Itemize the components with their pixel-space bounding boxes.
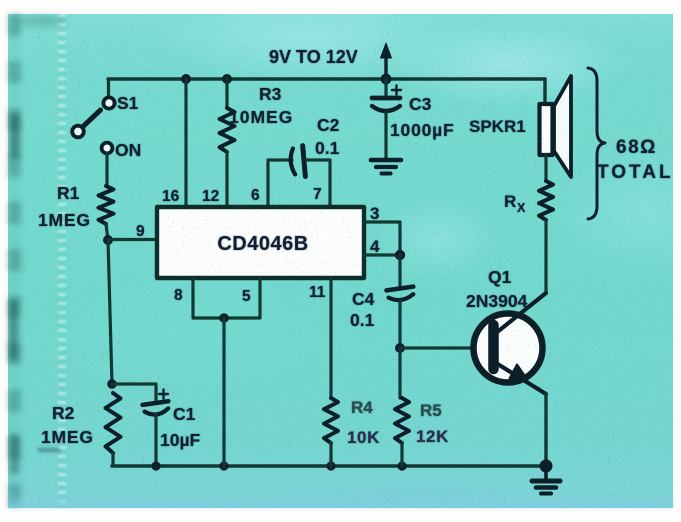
node: supply / C3 junction	[381, 74, 392, 85]
polarity + (C1)	[159, 390, 168, 399]
svg-text:C2: C2	[317, 115, 340, 135]
wire: R2 bottom to ground rail	[111, 453, 114, 466]
wire: pin 6 up to C2 loop	[268, 160, 292, 207]
wire: R4 to ground rail	[329, 443, 332, 466]
svg-text:1MEG: 1MEG	[41, 427, 94, 447]
svg-text:2N3904: 2N3904	[466, 291, 528, 311]
transistor Q1 2N3904	[474, 293, 547, 394]
svg-text:10µF: 10µF	[160, 430, 201, 450]
speaker SPKR1	[540, 76, 572, 177]
svg-text:12: 12	[202, 188, 219, 205]
wire: emitter to ground rail	[544, 394, 547, 466]
svg-text:R5: R5	[420, 401, 442, 420]
capacitor C2	[289, 146, 305, 178]
svg-text:X: X	[517, 201, 526, 215]
node: C1 / ground-rail junction	[151, 461, 160, 470]
svg-text:12K: 12K	[416, 427, 449, 446]
svg-text:CD4046B: CD4046B	[217, 233, 308, 255]
svg-text:4: 4	[370, 237, 380, 256]
wire: C1 bottom to ground rail	[154, 414, 157, 466]
resistor R3	[220, 108, 235, 152]
wire: C3 to ground	[384, 112, 387, 158]
wire: R1 to node A	[106, 224, 108, 240]
wire: loop down to ground rail	[222, 318, 225, 466]
node: R2/C1 junction	[107, 379, 117, 389]
node: emitter / ground-rail junction	[540, 460, 553, 473]
wire: +V rail to R3	[225, 79, 228, 108]
wire: ON terminal to R1	[105, 153, 108, 186]
svg-text:9V TO 12V: 9V TO 12V	[269, 47, 358, 67]
svg-text:Q1: Q1	[488, 267, 512, 287]
polarity + (C3)	[392, 86, 401, 95]
svg-text:5: 5	[242, 288, 251, 305]
wire: rail to C3	[384, 79, 387, 95]
wire: RX to collector	[544, 220, 547, 293]
wire: left rail down to R2 junction	[108, 240, 112, 384]
wire: pin 4 down to C4	[398, 255, 401, 286]
svg-text:C3: C3	[409, 94, 432, 114]
wire: R3 to pin 12	[225, 152, 228, 207]
svg-text:0.1: 0.1	[350, 310, 375, 330]
ground (emitter)	[532, 466, 560, 494]
wire: pin 11 down to R4	[329, 278, 332, 398]
svg-text:10MEG: 10MEG	[229, 107, 293, 127]
svg-text:3: 3	[370, 204, 379, 223]
node A: R1 / pin9 / left-rail junction	[103, 235, 113, 245]
capacitor C1 (polarized)	[143, 401, 170, 416]
svg-text:16: 16	[162, 188, 180, 205]
capacitor C3 (polarized 1000uF)	[372, 98, 400, 111]
svg-text:ON: ON	[115, 140, 141, 160]
node: loop center junction	[219, 313, 229, 323]
wire: C2 to pin 7	[306, 160, 330, 207]
svg-text:68Ω: 68Ω	[616, 137, 657, 158]
wire: pin 8 / pin 5 tie loop	[193, 278, 260, 318]
wire: speaker to RX	[544, 155, 547, 181]
svg-text:1000µF: 1000µF	[390, 120, 455, 140]
svg-text:R4: R4	[351, 398, 373, 417]
svg-text:C4: C4	[352, 289, 375, 309]
node: pin5/8 drop / ground-rail junction	[219, 461, 228, 470]
wire: pin 9 stub	[108, 238, 157, 241]
capacitor C4	[387, 287, 415, 302]
svg-text:R: R	[504, 192, 516, 211]
wire: node to Q1 base	[400, 346, 487, 349]
wire: junction to C1 top	[112, 384, 156, 400]
switch S1 (terminal, pole, ON terminal, arm)	[72, 97, 114, 153]
wire: rail corner down to S1	[107, 79, 110, 98]
brace: 68 ohms total	[588, 68, 605, 219]
wire: ground rail (bottom)	[112, 464, 546, 468]
resistor R5	[395, 398, 409, 443]
wire: node down to R5	[398, 348, 401, 398]
svg-text:R2: R2	[52, 403, 75, 423]
power arrow (+9V supply)	[381, 43, 392, 78]
svg-text:TOTAL: TOTAL	[597, 162, 674, 183]
svg-text:0.1: 0.1	[315, 138, 340, 158]
node: R5 / ground-rail junction	[397, 461, 406, 470]
resistor RX	[539, 181, 553, 220]
node: R3 / +V rail junction	[222, 74, 232, 84]
svg-text:R1: R1	[57, 183, 80, 203]
wire: pin 3 loop to pin 4	[364, 222, 400, 255]
wire: +V top rail	[108, 77, 545, 80]
svg-text:R3: R3	[259, 84, 282, 104]
wire: C4 to base node	[398, 301, 401, 348]
svg-text:SPKR1: SPKR1	[469, 117, 526, 136]
svg-text:8: 8	[174, 287, 183, 304]
svg-text:10K: 10K	[347, 428, 380, 447]
node: R4 / ground-rail junction	[326, 461, 335, 470]
wire: R5 to ground rail	[400, 443, 403, 466]
resistor R1	[99, 186, 114, 224]
node: pin16 / +V rail junction	[181, 74, 191, 84]
resistor R4	[324, 398, 338, 443]
node: pin 4 junction	[395, 250, 405, 260]
svg-text:1MEG: 1MEG	[38, 210, 91, 230]
svg-text:11: 11	[309, 284, 326, 301]
wire: +V rail to pin 16	[184, 79, 187, 207]
resistor R2	[106, 393, 121, 453]
svg-text:6: 6	[251, 187, 260, 204]
IC U1 CD4046B	[157, 207, 364, 278]
ground (C3)	[371, 160, 401, 174]
svg-text:C1: C1	[173, 404, 196, 424]
node: base / R5 junction	[395, 343, 405, 353]
wire: +V rail corner down to speaker	[545, 79, 546, 104]
svg-text:S1: S1	[117, 93, 139, 113]
svg-text:7: 7	[313, 186, 322, 203]
svg-text:9: 9	[136, 223, 145, 240]
